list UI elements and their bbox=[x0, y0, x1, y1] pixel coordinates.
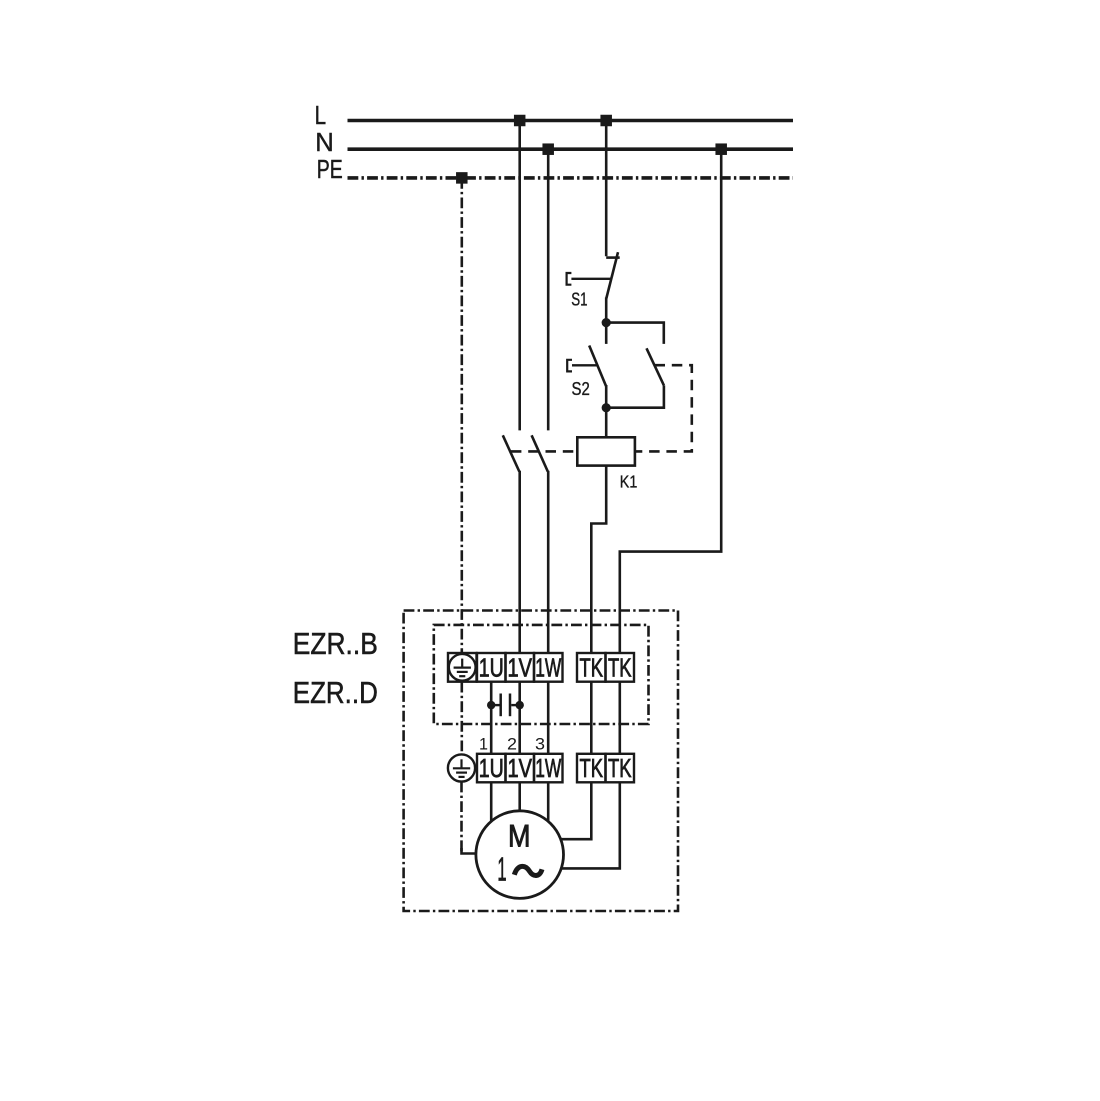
node junction N-1 bbox=[542, 143, 554, 155]
terminal 1V lower bbox=[506, 754, 535, 783]
earth symbol lower bbox=[453, 759, 470, 777]
svg-text:EZR..D: EZR..D bbox=[293, 676, 378, 710]
symbol tilde bbox=[514, 866, 542, 875]
wire TK1 upper to lower bbox=[590, 682, 593, 754]
terminal 1W upper bbox=[534, 653, 563, 682]
wire contact left to terminal 1V bbox=[518, 471, 521, 653]
box EZR outer bbox=[404, 611, 678, 912]
svg-text:1: 1 bbox=[497, 850, 506, 887]
node dot cap left bbox=[487, 701, 495, 709]
wire TK2 to motor bbox=[562, 782, 620, 868]
switch S2 blade bbox=[589, 346, 606, 387]
switch S1 blade bbox=[606, 252, 618, 298]
terminal TK2 lower bbox=[606, 754, 635, 783]
svg-text:TK: TK bbox=[608, 755, 632, 783]
node junction PE bbox=[456, 172, 468, 184]
wire 1U upper to lower bbox=[490, 682, 493, 754]
wire TK1 to motor bbox=[561, 782, 591, 839]
terminal 1V upper bbox=[506, 653, 535, 682]
svg-text:1V: 1V bbox=[508, 654, 533, 682]
node junction L-2 bbox=[600, 115, 612, 127]
wire N drop to TK2 bbox=[620, 149, 721, 653]
capacitor C stub left bbox=[491, 704, 499, 706]
terminal earth upper box bbox=[448, 653, 477, 682]
wire 1U to motor bbox=[490, 782, 493, 822]
terminal earth upper circle bbox=[449, 654, 476, 681]
wire 1W upper to lower bbox=[547, 682, 550, 754]
wire PE rail bbox=[348, 176, 794, 180]
wire N rail bbox=[348, 147, 794, 151]
svg-text:N: N bbox=[315, 127, 334, 157]
wire TK2 upper to lower bbox=[618, 682, 621, 754]
terminal TK1 upper bbox=[577, 653, 606, 682]
switch S1 actuator bracket bbox=[567, 273, 572, 285]
terminal TK1 lower bbox=[577, 754, 606, 783]
svg-text:K1: K1 bbox=[620, 471, 638, 491]
svg-text:TK: TK bbox=[608, 654, 632, 682]
switch S1 seat bbox=[606, 256, 620, 259]
svg-text:2: 2 bbox=[507, 735, 517, 753]
terminal TK2 upper bbox=[606, 653, 635, 682]
wire L drop to S1 bbox=[605, 121, 608, 257]
node dot A bbox=[602, 318, 611, 327]
switch S2 actuator bracket bbox=[567, 360, 572, 372]
contact K1 main left blade bbox=[503, 435, 520, 471]
capacitor C stub right bbox=[511, 704, 520, 706]
wire K1 coil to TK1 bbox=[591, 466, 606, 653]
wire node A to aux contact bbox=[606, 323, 664, 344]
terminal 1U lower bbox=[477, 754, 506, 783]
svg-text:1W: 1W bbox=[535, 755, 561, 783]
svg-text:L: L bbox=[315, 100, 327, 130]
terminal earth lower circle bbox=[448, 754, 475, 781]
terminal 1W lower bbox=[534, 754, 563, 783]
linkage dashed aux to K1 bbox=[635, 365, 692, 451]
terminal 1U upper bbox=[477, 653, 506, 682]
wire 1V to motor bbox=[518, 782, 521, 811]
wire 1W to motor bbox=[547, 782, 550, 821]
motor M1 circle bbox=[476, 811, 564, 899]
node junction N-2 bbox=[715, 143, 727, 155]
wire N drop to contact K1-right bbox=[547, 149, 550, 430]
wire S2 to K1 coil bbox=[605, 385, 608, 437]
svg-text:1: 1 bbox=[479, 735, 488, 753]
switch S2 actuator rod bbox=[572, 364, 597, 366]
wire L rail bbox=[348, 119, 794, 123]
node dot cap right bbox=[516, 701, 524, 709]
switch S2 aux blade bbox=[647, 348, 664, 385]
contact K1 main right blade bbox=[532, 435, 548, 471]
wire L drop to contact K1-left bbox=[518, 121, 521, 431]
wire aux contact bottom bbox=[606, 385, 664, 407]
switch S1 actuator rod bbox=[571, 278, 611, 280]
svg-text:1U: 1U bbox=[479, 654, 504, 682]
wire 1V upper to lower bbox=[518, 682, 521, 754]
svg-text:1W: 1W bbox=[535, 654, 561, 682]
capacitor C plate right bbox=[509, 694, 512, 717]
node junction L-1 bbox=[514, 115, 526, 127]
svg-text:PE: PE bbox=[317, 154, 343, 184]
earth symbol upper bbox=[454, 659, 471, 677]
wire contact right to terminal 1W bbox=[547, 471, 550, 653]
svg-text:TK: TK bbox=[580, 654, 604, 682]
wire PE to motor dash-dot bbox=[460, 782, 463, 853]
wire PE drop dash-dot bbox=[460, 178, 463, 653]
linkage dashed contacts to K1 bbox=[511, 450, 577, 453]
coil K1 bbox=[577, 437, 635, 465]
svg-text:1U: 1U bbox=[479, 755, 504, 783]
wire S1 to S2 bbox=[605, 298, 608, 344]
svg-text:M: M bbox=[508, 818, 531, 854]
box EZR inner bbox=[434, 625, 649, 724]
svg-text:1V: 1V bbox=[508, 755, 533, 783]
capacitor C plate left bbox=[499, 694, 502, 717]
wire PE between strips dash-dot bbox=[460, 682, 463, 755]
svg-text:3: 3 bbox=[535, 735, 545, 753]
svg-text:EZR..B: EZR..B bbox=[293, 627, 378, 661]
svg-text:TK: TK bbox=[580, 755, 604, 783]
node dot B bbox=[602, 403, 611, 412]
svg-text:S2: S2 bbox=[572, 379, 590, 399]
svg-text:S1: S1 bbox=[571, 290, 587, 310]
